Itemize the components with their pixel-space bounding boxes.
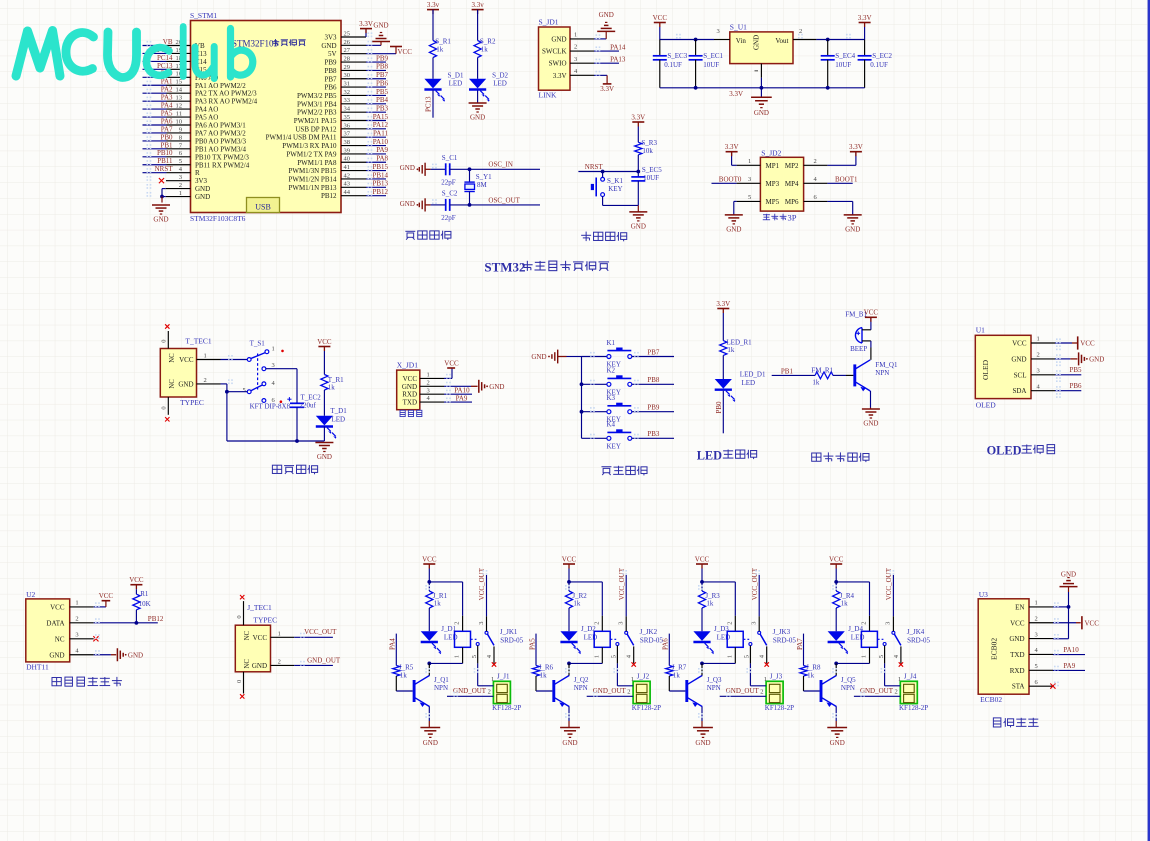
svg-text:Vin: Vin (736, 37, 747, 45)
svg-text:1: 1 (204, 353, 207, 360)
svg-text:DATA: DATA (46, 619, 64, 627)
svg-text:PWM1/2 TX PA9: PWM1/2 TX PA9 (286, 150, 337, 158)
svg-text:GND: GND (321, 42, 336, 50)
svg-text:VCC: VCC (317, 338, 332, 346)
svg-text:PA3: PA3 (161, 94, 173, 102)
svg-text:1k: 1k (807, 671, 815, 679)
U2 pin3 NC no-connect (93, 636, 98, 641)
svg-text:PB15: PB15 (372, 163, 388, 171)
svg-text:VCC: VCC (829, 555, 844, 563)
svg-text:LED: LED (851, 634, 865, 642)
svg-text:PA12: PA12 (373, 121, 389, 129)
bottom rail of power circuit (227, 426, 325, 443)
svg-text:2: 2 (179, 182, 182, 189)
svg-text:PA2 TX AO PWM2/3: PA2 TX AO PWM2/3 (195, 90, 257, 98)
pin 37 PA11 wire + net label (266, 130, 389, 142)
svg-text:29: 29 (344, 64, 351, 71)
svg-text:PWM1/4 USB DM PA11: PWM1/4 USB DM PA11 (266, 134, 337, 142)
U2 pin1 wire to VCC (94, 592, 114, 607)
transistor FM_Q1 NPN (855, 360, 898, 392)
pin 25 3V3 to 3.3V power (324, 29, 366, 42)
svg-text:VCC: VCC (422, 555, 437, 563)
capacitor T_EC2 220uf (287, 394, 321, 442)
pin 41 PB15 wire + net label (288, 163, 388, 175)
ground symbol below reset circuit (629, 205, 647, 230)
svg-text:PWM1/2N PB14: PWM1/2N PB14 (288, 175, 337, 183)
connector S_JD2 jumper 跳线帽3P (760, 149, 803, 223)
capacitor S_EC4 10UF (821, 40, 856, 88)
svg-text:2: 2 (861, 622, 868, 625)
svg-text:LED: LED (717, 634, 731, 642)
svg-text:S_D1: S_D1 (448, 71, 464, 79)
svg-text:GND: GND (252, 662, 267, 670)
power symbol VCC feeding S_U1 (653, 14, 668, 40)
svg-text:PA5 AO: PA5 AO (195, 114, 218, 122)
svg-text:GND: GND (631, 222, 646, 230)
svg-text:PB14: PB14 (372, 171, 388, 179)
svg-text:J_J1: J_J1 (497, 672, 510, 680)
svg-text:5: 5 (744, 655, 751, 658)
pin 40 PA8 wire + net label (297, 155, 388, 167)
svg-text:37: 37 (344, 131, 351, 138)
svg-text:PB8: PB8 (647, 376, 660, 384)
svg-text:9: 9 (179, 126, 182, 133)
svg-text:VCC: VCC (179, 356, 194, 364)
svg-text:KEY: KEY (608, 185, 622, 193)
svg-text:T_D1: T_D1 (330, 407, 347, 415)
svg-text:RXD: RXD (1010, 667, 1025, 675)
svg-text:PA2: PA2 (161, 86, 173, 94)
S_JD2 pin5 wire to GND (734, 194, 761, 215)
resistor J_R3 1k (698, 582, 720, 608)
wire relay pin5 to terminal pin1 (617, 663, 633, 685)
svg-text:VCC: VCC (695, 555, 710, 563)
svg-text:S_EC5: S_EC5 (642, 166, 662, 174)
svg-text:3: 3 (574, 56, 577, 63)
svg-text:ECB02: ECB02 (980, 695, 1002, 704)
pin 5 PB11 RX PWM2/4 wire + net PB11 (143, 157, 250, 169)
ground symbol channel J_R2 (560, 728, 580, 747)
svg-text:KF128-2P: KF128-2P (632, 704, 661, 712)
ground symbol channel J_R3 (693, 728, 713, 747)
svg-text:PB9: PB9 (324, 59, 337, 67)
key S_K1 (591, 172, 639, 206)
svg-text:1: 1 (574, 32, 577, 39)
svg-text:NPN: NPN (841, 684, 855, 692)
svg-text:GND: GND (489, 383, 504, 391)
svg-text:PA1 AO PWM2/2: PA1 AO PWM2/2 (195, 82, 246, 90)
svg-text:PB0: PB0 (715, 401, 723, 414)
svg-text:GND_OUT: GND_OUT (453, 687, 487, 695)
svg-text:PB1 AO PWM3/4: PB1 AO PWM3/4 (195, 145, 246, 153)
svg-text:1k: 1k (706, 600, 714, 608)
pin 16 PA0 AO wire + net PA0 (143, 70, 219, 82)
svg-text:2: 2 (760, 688, 763, 695)
svg-text:S_R2: S_R2 (480, 38, 496, 46)
pin 4 R wire + net NRST (143, 165, 201, 177)
svg-text:22pF: 22pF (441, 214, 456, 222)
svg-text:KF128-2P: KF128-2P (765, 704, 794, 712)
svg-text:3: 3 (1037, 368, 1040, 375)
key K3 with net PB9 (582, 394, 675, 424)
no-connect on relay pin 4 (899, 662, 903, 666)
IC U3 ECB02 bluetooth module (978, 590, 1053, 704)
svg-text:EN: EN (1015, 603, 1024, 611)
svg-text:PA3 RX AO PWM2/4: PA3 RX AO PWM2/4 (195, 98, 258, 106)
svg-text:NC: NC (55, 635, 65, 643)
power symbol 3.3V over LED_R1 (716, 300, 730, 341)
svg-text:GND: GND (423, 739, 438, 747)
svg-text:GND: GND (400, 164, 415, 172)
svg-text:PB6: PB6 (1069, 382, 1082, 390)
svg-text:SRD-05: SRD-05 (640, 637, 663, 645)
svg-text:RXD: RXD (402, 391, 417, 399)
svg-text:GND: GND (373, 21, 388, 29)
rotated net label VCC_OUT (478, 567, 486, 616)
svg-text:PA7: PA7 (796, 638, 804, 650)
svg-text:PA6: PA6 (161, 117, 173, 125)
S_JD2 pin2 wire to 3.3V (804, 143, 863, 165)
svg-text:OLED: OLED (987, 443, 1022, 457)
svg-text:S_K1: S_K1 (607, 177, 623, 185)
svg-text:STA: STA (1012, 683, 1025, 691)
svg-text:PB8: PB8 (376, 63, 389, 71)
svg-text:10K: 10K (139, 600, 151, 608)
rotated net label VCC_OUT (885, 567, 893, 616)
svg-text:40: 40 (344, 156, 351, 163)
J_TEC1 shell pin 0 top (236, 595, 245, 625)
svg-text:PB10 TX PWM2/3: PB10 TX PWM2/3 (195, 153, 249, 161)
svg-text:VCC: VCC (444, 359, 459, 367)
wire emitter to ground (701, 707, 703, 728)
svg-text:2: 2 (427, 379, 430, 386)
svg-text:J_JK2: J_JK2 (640, 628, 658, 636)
svg-text:VCC: VCC (129, 576, 144, 584)
LED J_D3 (693, 608, 730, 654)
svg-text:33: 33 (344, 97, 351, 104)
svg-text:2: 2 (574, 44, 577, 51)
svg-text:MP4: MP4 (785, 180, 799, 188)
svg-text:3V3: 3V3 (195, 177, 208, 185)
logo MCUclub (16, 27, 253, 79)
wire switch pin3 to VCC column (266, 369, 297, 404)
svg-text:PB12: PB12 (372, 188, 388, 196)
X_JD1 pin2 wire to GND (444, 380, 504, 393)
svg-text:PC14: PC14 (157, 54, 173, 62)
svg-text:GND_OUT: GND_OUT (726, 687, 760, 695)
svg-text:J_R4: J_R4 (840, 592, 855, 600)
LED J_D1 (421, 608, 458, 654)
ground symbol above S_JD1 (597, 11, 615, 31)
svg-text:GND: GND (754, 109, 769, 117)
svg-text:GND: GND (695, 739, 710, 747)
svg-text:VCC_OUT: VCC_OUT (478, 567, 486, 600)
ground symbol below S_U1 (751, 97, 772, 117)
wire coil bottom to LED junction (700, 662, 735, 666)
svg-text:NPN: NPN (875, 369, 889, 377)
svg-text:10: 10 (176, 118, 183, 125)
svg-text:KEY: KEY (607, 442, 621, 450)
svg-text:10k: 10k (642, 147, 653, 155)
svg-text:10UF: 10UF (835, 61, 851, 69)
svg-text:J_J4: J_J4 (904, 672, 917, 680)
wire S_JD1 pin4 to 3.3V (below) (594, 75, 614, 92)
svg-text:1k: 1k (573, 600, 581, 608)
svg-text:OSC_IN: OSC_IN (488, 161, 513, 169)
ground symbol power circuit (315, 443, 333, 461)
wire net GND_OUT to terminal pin2 (720, 687, 766, 696)
svg-text:VCC_OUT: VCC_OUT (885, 567, 893, 600)
svg-text:PB12: PB12 (148, 615, 164, 623)
svg-text:PB12: PB12 (321, 192, 337, 200)
power symbol VCC over buzzer (864, 309, 879, 322)
svg-text:PA10: PA10 (1063, 646, 1079, 654)
pin 9 PA7 AO PWM3/2 wire + net PA7 (143, 125, 247, 137)
svg-text:NRST: NRST (585, 163, 604, 171)
svg-text:Vout: Vout (775, 37, 788, 45)
terminal J_J4 KF128-2P (895, 672, 929, 712)
transistor J_Q3 NPN (687, 663, 722, 707)
svg-text:LED: LED (444, 634, 458, 642)
wire FM_R1 to base (833, 374, 853, 376)
wire NRST net (578, 155, 638, 174)
LED S_D2 (469, 71, 509, 102)
key K4 with net PB3 (582, 421, 675, 451)
wire VCC junction to coil branch (427, 580, 462, 616)
svg-text:NRST: NRST (155, 165, 174, 173)
svg-text:PA5: PA5 (161, 109, 173, 117)
ground symbol at S_STM1 pin 26 (372, 21, 390, 41)
svg-text:PA11: PA11 (373, 130, 389, 138)
svg-text:GND_OUT: GND_OUT (593, 687, 627, 695)
svg-text:42: 42 (344, 172, 351, 179)
svg-text:VCC: VCC (50, 603, 65, 611)
power symbol 3.3v over S_R1 (427, 1, 440, 14)
pin 34 PB3 wire + net label (297, 104, 388, 116)
svg-text:PA5: PA5 (528, 638, 536, 650)
pin 31 PB6 wire + net label (324, 79, 388, 91)
terminal J_J1 KF128-2P (488, 672, 522, 712)
svg-text:PA13: PA13 (610, 56, 626, 64)
section label 温湿度传感器 (52, 677, 122, 687)
J_TEC1 pin2 wire net GND_OUT (271, 656, 341, 665)
svg-text:PC13: PC13 (157, 62, 173, 70)
svg-text:PB9: PB9 (647, 404, 660, 412)
pin 7 PB1 AO PWM3/4 wire + net PB1 (143, 141, 247, 153)
wire regulator GND pin to rail (760, 78, 762, 98)
svg-text:PB13: PB13 (372, 180, 388, 188)
section label 电源电路 (272, 465, 317, 474)
pin 15 PA1 AO PWM2/2 wire + net PA1 (143, 78, 247, 90)
svg-text:K4: K4 (607, 421, 616, 429)
svg-text:1k: 1k (400, 671, 408, 679)
pin 19 C13 wire + net PC15 (143, 46, 208, 58)
svg-text:LED: LED (584, 634, 598, 642)
connector S_JD1 LINK (SWD header) (539, 18, 595, 100)
svg-text:1: 1 (726, 655, 733, 658)
svg-text:3: 3 (179, 174, 182, 181)
svg-text:2: 2 (278, 659, 281, 666)
wire net GND_OUT to terminal pin2 (587, 687, 633, 696)
svg-text:5: 5 (878, 655, 885, 658)
svg-text:S_R3: S_R3 (641, 139, 657, 147)
svg-text:VCC: VCC (1080, 340, 1095, 348)
svg-text:SWCLK: SWCLK (542, 48, 567, 56)
svg-text:BOOT1: BOOT1 (835, 175, 858, 183)
svg-text:VCC_OUT: VCC_OUT (304, 628, 337, 636)
svg-text:ECB02: ECB02 (990, 638, 999, 660)
svg-text:2: 2 (726, 622, 733, 625)
section label 蓝牙模块 (993, 718, 1038, 728)
resistor S_R1 1k (429, 38, 451, 58)
pin 42 PB14 wire + net label (288, 171, 388, 183)
svg-text:LED: LED (742, 379, 756, 387)
S_JD2 pin1 wire to 3.3V (725, 143, 761, 165)
svg-text:TXD: TXD (1010, 651, 1024, 659)
svg-text:1k: 1k (812, 379, 820, 387)
svg-text:1k: 1k (328, 383, 336, 391)
svg-text:GND: GND (128, 651, 143, 659)
svg-text:GND: GND (195, 193, 210, 201)
wire U3 TXD net PA10 (1053, 646, 1085, 654)
svg-text:S_C2: S_C2 (442, 190, 458, 198)
wire net GND_OUT to terminal pin2 (854, 687, 900, 696)
svg-text:PWM1/1 PA8: PWM1/1 PA8 (297, 159, 337, 167)
svg-text:S_C1: S_C1 (442, 154, 458, 162)
ground symbol under S_JD2 pin5 (725, 215, 743, 233)
svg-text:NPN: NPN (707, 684, 721, 692)
svg-text:PC13: PC13 (425, 96, 433, 112)
svg-text:PA15: PA15 (373, 113, 389, 121)
pin 43 PB13 wire + net label (288, 180, 388, 192)
svg-text:1: 1 (454, 655, 461, 658)
svg-text:GND: GND (1009, 635, 1024, 643)
svg-text:BEEP: BEEP (850, 345, 867, 353)
svg-text:S_R1: S_R1 (435, 38, 451, 46)
svg-text:1: 1 (898, 676, 901, 683)
capacitor S_EC1 10UF (689, 40, 724, 88)
svg-text:K1: K1 (607, 339, 616, 347)
svg-text:OSC_OUT: OSC_OUT (488, 196, 520, 204)
svg-text:PB7: PB7 (324, 75, 337, 83)
LED T_D1 (316, 390, 347, 439)
svg-text:41: 41 (344, 164, 351, 171)
svg-text:2: 2 (593, 622, 600, 625)
resistor J_R4 1k (833, 582, 855, 608)
svg-text:PB3: PB3 (647, 430, 660, 438)
svg-text:1: 1 (278, 631, 281, 638)
pin 29 PB8 wire + net label (324, 63, 388, 75)
svg-text:PWM1/1N PB13: PWM1/1N PB13 (288, 184, 337, 192)
svg-text:USB: USB (255, 202, 271, 211)
LED S_D1 (424, 71, 464, 102)
svg-text:VCC: VCC (253, 634, 268, 642)
svg-text:2: 2 (488, 688, 491, 695)
svg-text:VCC: VCC (403, 375, 418, 383)
svg-text:3P: 3P (788, 213, 797, 223)
rotated net label VCC_OUT (751, 567, 759, 616)
relay J_JK4 SRD-05 coil (861, 616, 931, 664)
svg-text:S_Y1: S_Y1 (476, 173, 492, 181)
svg-text:35: 35 (344, 114, 351, 121)
svg-text:PA9: PA9 (1063, 662, 1075, 670)
power symbol VCC channel J_R3 (695, 555, 710, 582)
pin 26 GND wire (321, 39, 381, 50)
ground symbol channel J_R4 (827, 728, 847, 747)
svg-text:5V: 5V (328, 50, 337, 58)
LED J_D2 (560, 608, 597, 654)
svg-text:2: 2 (204, 377, 207, 384)
svg-text:44: 44 (344, 189, 351, 196)
svg-text:13: 13 (176, 95, 183, 102)
svg-text:1: 1 (491, 676, 494, 683)
svg-text:TYPEC: TYPEC (180, 398, 204, 407)
svg-text:2: 2 (1035, 615, 1038, 622)
buzzer FM_B1 BEEP (845, 311, 871, 360)
svg-text:PB11: PB11 (157, 157, 173, 165)
svg-text:KF128-2P: KF128-2P (492, 704, 521, 712)
transistor J_Q5 NPN (821, 663, 856, 707)
svg-text:GND: GND (752, 35, 760, 50)
svg-text:0: 0 (161, 340, 168, 343)
svg-text:PWM2/2 PB3: PWM2/2 PB3 (297, 109, 337, 117)
pin 39 PA9 wire + net label (286, 146, 388, 158)
svg-text:SDA: SDA (1012, 387, 1026, 395)
U2 pin2 DATA wire net PB12 (94, 610, 164, 625)
svg-text:PWM1/3 RX PA10: PWM1/3 RX PA10 (282, 142, 337, 150)
wire emitter to ground (428, 707, 430, 728)
T_TEC1 shell pin 0 top (161, 324, 170, 348)
svg-text:GND: GND (195, 185, 210, 193)
key K1 with net PB7 (582, 339, 675, 369)
svg-text:VCC: VCC (562, 555, 577, 563)
svg-text:PA7 AO PWM3/2: PA7 AO PWM3/2 (195, 129, 246, 137)
power symbol VCC channel J_R4 (829, 555, 844, 582)
section label 按键电路 (601, 466, 647, 476)
relay J_JK3 SRD-05 coil (726, 616, 796, 664)
svg-text:MP3: MP3 (766, 180, 780, 188)
section label STM32单片机最小系统 (484, 259, 609, 274)
wire S_JD1 pin2 net PA14 (594, 43, 626, 51)
svg-text:OLED: OLED (976, 400, 997, 409)
svg-text:1k: 1k (434, 600, 442, 608)
svg-text:NC: NC (169, 379, 176, 389)
LED J_D4 (828, 608, 865, 654)
svg-text:KFT DIP-8X8: KFT DIP-8X8 (250, 402, 291, 410)
X_JD1 pin4 wire net PA9 (444, 394, 472, 402)
svg-text:S_JD2: S_JD2 (761, 149, 781, 158)
svg-text:3.3V: 3.3V (600, 85, 614, 93)
svg-text:USB DP PA12: USB DP PA12 (295, 125, 337, 133)
LED LED_D1 (715, 355, 766, 402)
X_JD1 pin3 wire net PA10 (444, 386, 472, 394)
section label 复位电路 (581, 232, 627, 242)
svg-text:1: 1 (1037, 336, 1040, 343)
wire VCC junction to coil branch (834, 580, 869, 616)
svg-text:3.3V: 3.3V (858, 14, 872, 22)
wire resistor to LED (477, 58, 479, 79)
power symbol 3.3V at regulator output (858, 14, 872, 40)
svg-text:NPN: NPN (434, 684, 448, 692)
pin 44 PB12 wire + net label (321, 188, 389, 200)
IC U2 DHT11 sensor (26, 590, 94, 672)
pin 30 PB7 wire + net label (324, 71, 388, 83)
svg-text:GND: GND (178, 380, 193, 388)
section label OLED屏显示 (987, 443, 1055, 457)
svg-text:NPN: NPN (574, 684, 588, 692)
svg-text:1: 1 (861, 655, 868, 658)
svg-text:15: 15 (176, 79, 183, 86)
